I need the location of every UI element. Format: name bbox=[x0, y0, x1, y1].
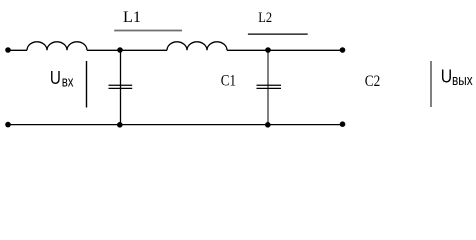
node A: junction L1/C1 top bbox=[117, 47, 123, 53]
svg-text:вых: вых bbox=[452, 72, 473, 89]
node: C1 bottom junction bbox=[117, 122, 123, 128]
svg-text:C2: C2 bbox=[365, 73, 380, 90]
node: input terminal top bbox=[5, 47, 11, 53]
node: output terminal bottom bbox=[340, 121, 346, 127]
label L2 underline bbox=[248, 33, 308, 35]
wire bottom rail bbox=[8, 124, 343, 126]
wire top rail between L1 and L2 bbox=[87, 49, 167, 51]
capacitor C1 bbox=[109, 50, 133, 124]
output voltage measurement bar bbox=[430, 61, 432, 107]
svg-text:U: U bbox=[441, 66, 452, 87]
capacitor C2 bbox=[257, 50, 282, 124]
wire top rail output segment bbox=[227, 49, 343, 51]
input voltage measurement bar bbox=[86, 61, 88, 108]
inductor L2 bbox=[167, 42, 227, 51]
svg-text:вх: вх bbox=[62, 74, 74, 90]
node: C2 bottom junction bbox=[265, 122, 271, 128]
svg-text:C1: C1 bbox=[221, 72, 236, 89]
label L1 underline bbox=[114, 30, 182, 32]
node B: junction L2/C2 top bbox=[265, 47, 271, 53]
svg-text:U: U bbox=[50, 67, 61, 88]
wire top rail input segment bbox=[8, 49, 27, 51]
svg-text:L1: L1 bbox=[123, 9, 141, 26]
inductor L1 bbox=[27, 42, 87, 51]
node: output terminal top bbox=[340, 47, 346, 53]
svg-text:L2: L2 bbox=[258, 10, 272, 26]
node: input terminal bottom bbox=[5, 122, 11, 128]
